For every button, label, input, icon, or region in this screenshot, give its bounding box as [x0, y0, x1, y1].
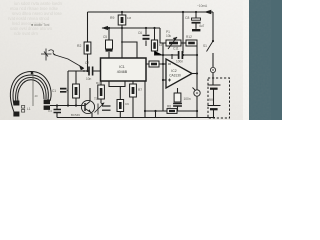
telephone pick-up symbol: [41, 49, 55, 61]
svg-text:C1: C1: [52, 89, 56, 93]
wire: op-amp top stub: [171, 54, 173, 59]
wire: C8 branch from top rail: [195, 12, 197, 28]
wire: input line into IC1 pin: [68, 70, 101, 72]
svg-text:BC549: BC549: [71, 113, 80, 117]
node: top rail / R9: [121, 11, 123, 13]
wire: C11 row: [163, 54, 197, 56]
ground below C8: [192, 28, 200, 31]
wire: R1 branch: [75, 71, 77, 106]
capacitor C2 (series input): [85, 61, 93, 81]
wire: T1 collector: [89, 88, 91, 101]
capacitor C12 (below op-amp): [173, 93, 191, 106]
pointer arrowhead: [79, 66, 84, 71]
svg-text:IC1: IC1: [119, 65, 125, 69]
svg-text:~10mA: ~10mA: [197, 4, 208, 8]
node: coil line / left branch: [67, 104, 69, 106]
svg-text:10k: 10k: [159, 43, 164, 47]
node: second rail / C5: [108, 27, 110, 29]
resistor R13: [149, 61, 159, 67]
pointer line from telephone symbol: [54, 55, 84, 69]
node: output column / R8 row: [196, 110, 198, 112]
wire: op-amp input column x=163: [162, 43, 164, 111]
resistor R7: [130, 84, 143, 97]
resistor R8: [167, 105, 177, 114]
switch S1: [203, 41, 213, 52]
svg-text:C5: C5: [103, 35, 107, 39]
wire: T1 emitter to rail: [91, 113, 93, 118]
svg-text:100n: 100n: [176, 60, 183, 64]
wire: coil output line: [50, 105, 81, 107]
node: C11 row left: [162, 54, 164, 56]
capacitor C4: [48, 109, 61, 113]
node: non-inverting input: [162, 79, 164, 81]
resistor R4: [96, 81, 104, 99]
svg-text:R9: R9: [110, 16, 114, 20]
pick-up coil L1: [10, 72, 51, 113]
capacitor C9: [117, 100, 129, 112]
node: R8 row / x145 column: [144, 110, 146, 112]
capacitor C5 (electrolytic above IC1): [103, 35, 113, 52]
coil centre line: [32, 73, 34, 106]
resistor R1: [73, 84, 80, 98]
plug marks between coil terminals: [22, 106, 25, 113]
wire: IC1 right-bottom pin column: [144, 81, 146, 118]
wire: IC1 top pin from second rail: [121, 28, 123, 58]
svg-text:4u7: 4u7: [199, 24, 205, 28]
svg-text:C2: C2: [85, 61, 89, 65]
node: R8 row / rail stub: [154, 110, 156, 112]
wire: left branch down to coil line: [67, 71, 69, 106]
capacitor C8: [185, 16, 205, 28]
wire: second supply rail: [102, 27, 160, 29]
transistor T1: [71, 97, 98, 117]
svg-text:R2: R2: [77, 44, 81, 48]
svg-text:■ audio Toni: ■ audio Toni: [31, 23, 50, 27]
wire: bottom ground rail: [57, 117, 215, 119]
node: coil line / R1: [75, 104, 77, 106]
resistor R2: [77, 42, 91, 54]
svg-text:10k: 10k: [166, 34, 172, 38]
svg-text:C11: C11: [173, 47, 179, 51]
wire: battery internal links: [213, 89, 215, 118]
wire: battery top link: [212, 78, 214, 85]
wire: IC1 output through R13 to op-amp: [146, 63, 163, 65]
svg-text:CA3130: CA3130: [169, 74, 181, 78]
node: input wire / R2 column: [86, 70, 88, 72]
connector circle on battery lead: [210, 67, 215, 72]
svg-text:R8: R8: [167, 105, 171, 109]
wire: corner from second rail down to P1 row: [160, 28, 166, 43]
op-amp IC2 CA3130: [166, 59, 192, 88]
battery cell 2: [208, 106, 221, 111]
svg-text:R12: R12: [186, 35, 192, 39]
node: coil line / C4: [56, 104, 58, 106]
wire: op-amp bottom stub to C12: [177, 88, 179, 93]
svg-text:10n: 10n: [86, 77, 92, 81]
svg-text:40: 40: [35, 94, 39, 98]
svg-text:L1: L1: [27, 107, 31, 111]
wire: switch to battery link: [212, 53, 214, 78]
wire: left vertical branch through R2: [87, 12, 89, 71]
wire: P1 to R12 link: [181, 42, 186, 44]
node: IC1 top jog: [121, 41, 123, 43]
resistor R12: [186, 35, 197, 46]
wire: stub from R8 row to rail: [155, 111, 157, 118]
current arrow on second rail: [102, 26, 109, 30]
wire: IC1 bottom pin to R4: [100, 81, 102, 103]
coil terminals right: [44, 100, 50, 110]
coil apex junction: [31, 72, 34, 75]
trimmer capacitor C3: [95, 103, 111, 115]
node: C11 row / top column: [182, 54, 184, 56]
svg-text:C4: C4: [48, 109, 52, 113]
node: input wire / pointer: [83, 70, 85, 72]
svg-text:IC2: IC2: [171, 69, 176, 73]
node: second rail / R10: [153, 27, 155, 29]
svg-text:S1: S1: [203, 44, 207, 48]
resistor R9: [110, 15, 132, 25]
wire: R9 connections: [121, 12, 123, 28]
wire: IC1 bottom pin bus: [109, 81, 125, 100]
wire: C12 bottom stub: [177, 107, 179, 112]
node: switch top contact: [212, 40, 214, 42]
earphone indicator: [193, 88, 201, 97]
node: top rail / C8: [195, 11, 197, 13]
wire: output column x=197: [196, 43, 198, 118]
node: top rail / C11 column: [182, 11, 184, 13]
wire: op-amp inverting input: [163, 63, 166, 65]
wire: op-amp output: [192, 73, 197, 75]
current arrow on top rail: [204, 10, 211, 14]
wire: vertical from top rail to C11 row: [182, 12, 184, 53]
node: second rail / R9: [121, 27, 123, 29]
wire: op-amp non-inverting input: [163, 79, 166, 81]
svg-text:C8: C8: [185, 16, 189, 20]
op-amp IC1 4046B: [101, 58, 147, 81]
capacitor C6: [138, 28, 150, 46]
svg-text:C9: C9: [125, 102, 129, 106]
coil terminals left: [13, 101, 19, 117]
battery cell 1: [208, 85, 221, 90]
wire: IC1 bottom pin through R7: [132, 81, 134, 118]
wire: R8 row: [145, 110, 197, 112]
svg-text:R4: R4: [96, 81, 100, 85]
svg-text:R7: R7: [138, 88, 142, 92]
resistor R10: [151, 28, 164, 55]
wire: top-right corner down to switch S1: [212, 12, 214, 40]
wire: C4 stubs: [56, 106, 58, 118]
wire: C5 stubs: [108, 28, 110, 58]
node: second rail / C6: [145, 27, 147, 29]
potentiometer P1: [166, 30, 181, 49]
svg-text:9V: 9V: [209, 98, 214, 102]
svg-text:1M: 1M: [127, 16, 132, 20]
capacitor C1: [52, 89, 68, 93]
battery Bt1 enclosure: [208, 78, 230, 118]
svg-text:C6: C6: [138, 31, 142, 35]
wire: IC1 top pin jog: [122, 42, 137, 58]
capacitor C11: [173, 47, 183, 64]
node: C11 row right: [196, 54, 198, 56]
svg-text:4046B: 4046B: [117, 70, 128, 74]
node: op-amp output: [196, 72, 198, 74]
wire: C9 bottom stub: [119, 112, 121, 118]
svg-text:100n: 100n: [184, 97, 191, 101]
node: inverting input: [162, 63, 164, 65]
wire: +V supply top rail: [88, 11, 214, 13]
